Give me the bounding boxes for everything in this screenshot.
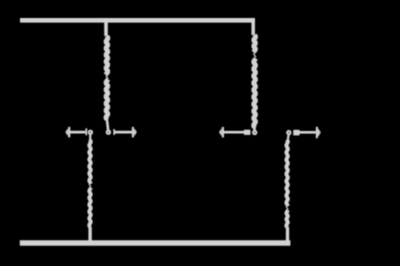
resistor R8 (lower right, bottom section) [286,210,288,227]
node B post (open-circle terminal) [89,131,92,134]
ground G3 (left of node C) [222,127,224,138]
resistor R6 (upper right, bottom section) [253,58,256,127]
node D post (open-circle terminal) [287,131,290,134]
wire lead from R2 to node A [107,119,108,130]
resistor R7 (lower right, top section) [286,140,288,206]
wire from ground G1 to node B [69,131,85,134]
wire lead from node D to R7 [287,135,290,140]
resistor R4 (lower left, bottom half) [89,188,91,228]
source plate bar at node A [113,129,115,135]
node A post (open-circle terminal) [107,131,110,134]
wire bottom supply rail [20,240,291,245]
wire from ground G3 to node C block [224,131,244,134]
resistor R1 (upper left, top half) [106,36,109,75]
wire lead from R4 to bottom rail [88,227,91,243]
joint between R3 and R4 [89,184,91,187]
wire lead from node B to R3 [89,135,91,140]
wire stub from top rail down to R1 [104,19,108,36]
joint between R7 and R8 [286,207,288,210]
wire lead from R8 to bottom rail corner [286,227,289,243]
wire from node A plate to ground G2 [115,131,132,134]
resistor R5 (upper right, top section) [253,35,256,52]
source block at node C [244,130,251,135]
ground G4 (right of node D) [316,127,318,138]
node C post (open-circle terminal) [253,131,256,134]
wire lead from R6 to node C [253,127,256,131]
ground G1 (left of node B) [68,127,70,137]
resistor R3 (lower left, top half) [89,140,91,184]
wire stub from top rail corner down to R5 [251,19,255,35]
joint between R1 and R2 [106,76,108,79]
wire from node D block to ground G4 [300,131,316,134]
joint between R5 and R6 [253,53,256,57]
source plate bar at node B [85,128,87,135]
source block at node D [293,130,299,136]
resistor R2 (upper left, bottom half) [106,79,109,119]
ground G2 (right of node A) [132,127,134,137]
wire top supply rail [20,18,255,23]
